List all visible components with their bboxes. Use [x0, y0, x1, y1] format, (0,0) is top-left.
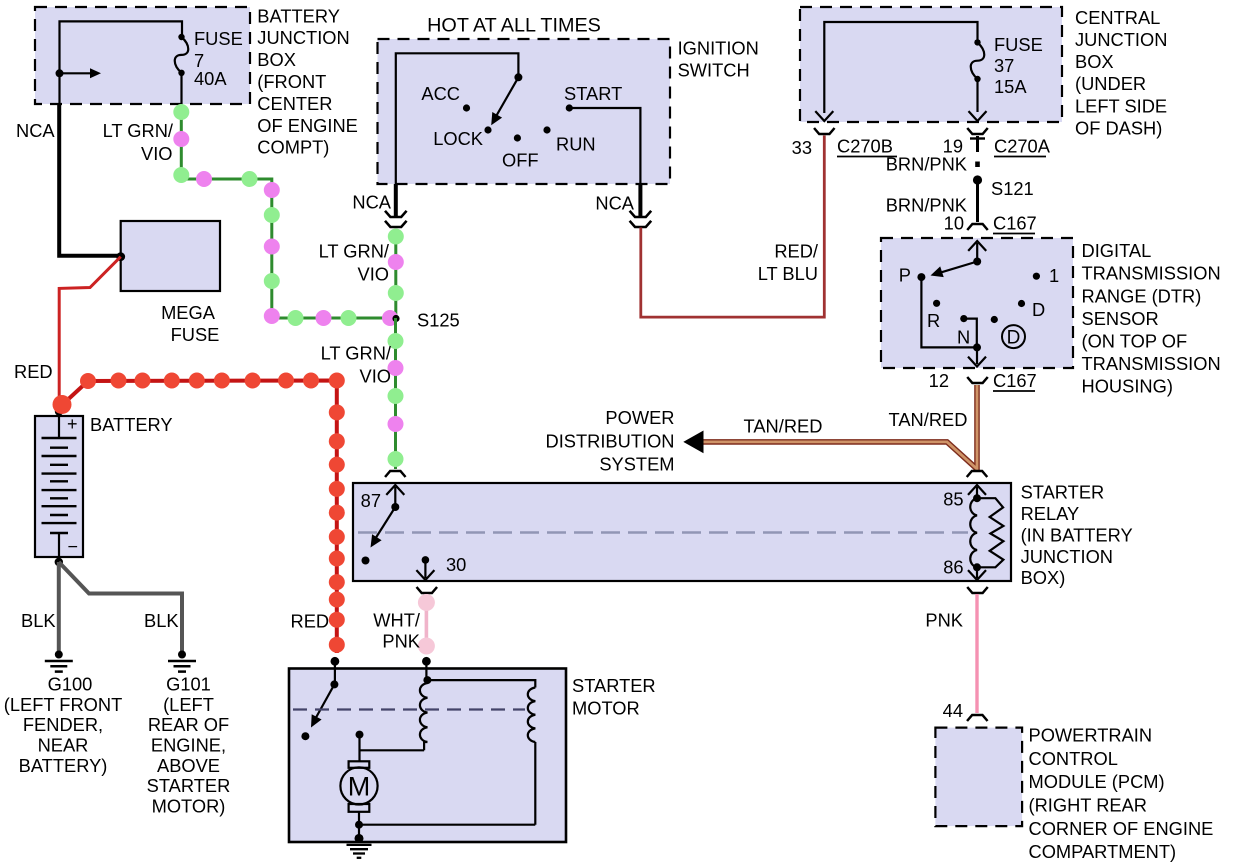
DTR P contact [899, 265, 926, 286]
BJB caption [257, 5, 358, 157]
svg-text:(LEFT FRONT: (LEFT FRONT [4, 694, 123, 715]
svg-text:LT GRN/: LT GRN/ [103, 120, 174, 141]
wire WHT/PNK [418, 594, 435, 655]
svg-text:MEGA: MEGA [161, 302, 216, 323]
connector C270B symbol [814, 128, 835, 134]
relay 87 label [361, 490, 381, 511]
wire BLK to G101 [59, 562, 182, 651]
relay interior dashed line [358, 531, 968, 533]
DTR N stub wire [964, 319, 977, 348]
svg-text:(RIGHT REAR: (RIGHT REAR [1029, 795, 1148, 816]
relay coil [970, 494, 1003, 571]
ground starter motor [347, 834, 372, 858]
svg-text:C270A: C270A [994, 136, 1051, 157]
svg-text:S125: S125 [417, 310, 460, 331]
pin 12 label [929, 370, 949, 391]
IGN ACC contact [421, 83, 470, 112]
svg-text:LOCK: LOCK [433, 128, 483, 149]
starter relay box [353, 483, 1011, 581]
splice S125 [382, 310, 460, 331]
DTR D contact [1018, 299, 1045, 320]
svg-text:NCA: NCA [352, 192, 391, 213]
svg-text:PNK: PNK [925, 610, 963, 631]
pin 10 label [944, 213, 964, 234]
DTR sensor box (dashed) [881, 238, 1073, 368]
fuse F7 (FUSE 7 40A) [175, 34, 189, 104]
svg-text:VIO: VIO [360, 366, 392, 387]
svg-text:BRN/PNK: BRN/PNK [886, 154, 967, 175]
svg-text:12: 12 [929, 370, 949, 391]
svg-text:COMPARTMENT): COMPARTMENT) [1029, 841, 1177, 862]
svg-text:SWITCH: SWITCH [678, 60, 750, 81]
svg-text:G100: G100 [48, 674, 93, 695]
relay pin 30 connector [417, 587, 438, 593]
svg-text:BOX): BOX) [1021, 567, 1066, 588]
svg-text:JUNCTION: JUNCTION [1075, 29, 1167, 50]
G101 caption [147, 674, 231, 817]
DTR R contact [927, 300, 940, 331]
svg-text:FUSE: FUSE [994, 34, 1043, 55]
svg-text:RED: RED [14, 361, 53, 382]
svg-text:COMPT): COMPT) [257, 137, 329, 158]
C167 upper label [993, 213, 1037, 234]
svg-text:BATTERY): BATTERY) [19, 755, 108, 776]
ground G101 [168, 651, 196, 672]
svg-text:JUNCTION: JUNCTION [257, 27, 349, 48]
svg-text:POWER: POWER [605, 407, 674, 428]
svg-text:1: 1 [1049, 265, 1059, 286]
IGN internal wire from ACC feed [396, 53, 519, 184]
pin 33 label [792, 137, 812, 158]
NCA label mid [352, 192, 391, 213]
LT GRN/VIO label 2 [319, 241, 390, 285]
svg-text:C167: C167 [993, 213, 1037, 234]
svg-text:REAR OF: REAR OF [148, 714, 229, 735]
svg-text:ENGINE,: ENGINE, [151, 735, 226, 756]
svg-text:G101: G101 [166, 674, 211, 695]
IGN right NCA wire [638, 184, 642, 217]
svg-text:MODULE (PCM): MODULE (PCM) [1029, 771, 1165, 792]
DTR caption [1082, 240, 1221, 397]
svg-text:(UNDER: (UNDER [1075, 73, 1146, 94]
motor interior dashed line [293, 708, 525, 710]
IGN START contact [564, 83, 622, 112]
svg-text:OF DASH): OF DASH) [1075, 117, 1162, 138]
relay pin 30 [416, 554, 466, 580]
svg-text:OF ENGINE: OF ENGINE [257, 115, 358, 136]
wire BLK to G100 [57, 562, 61, 651]
svg-text:LT GRN/: LT GRN/ [321, 343, 392, 364]
svg-text:STARTER: STARTER [1021, 482, 1105, 503]
wire RED battery to mega fuse [59, 257, 120, 402]
svg-text:RELAY: RELAY [1021, 503, 1080, 524]
wire NCA from BJB [59, 104, 118, 256]
relay pin 87 arrow [386, 485, 404, 507]
svg-text:M: M [348, 772, 371, 802]
svg-text:BATTERY: BATTERY [257, 5, 340, 26]
motor brush upper [349, 761, 370, 768]
svg-text:VIO: VIO [141, 143, 173, 164]
starter motor caption [572, 675, 656, 719]
IGN switch arm [491, 73, 522, 125]
BLK label left [21, 610, 56, 631]
DTR exit node and arrow [968, 343, 986, 366]
MEGA FUSE caption [161, 302, 219, 345]
BRN/PNK label upper [886, 154, 967, 175]
DTR middle contact [991, 316, 998, 323]
svg-text:(ON TOP OF: (ON TOP OF [1082, 331, 1188, 352]
svg-text:40A: 40A [194, 68, 227, 89]
IGN RUN contact [543, 126, 595, 154]
svg-text:TAN/RED: TAN/RED [744, 416, 823, 437]
CJB pin33 arrow [815, 111, 833, 121]
svg-text:LT BLU: LT BLU [758, 263, 818, 284]
svg-text:BATTERY: BATTERY [90, 414, 173, 435]
svg-text:CENTRAL: CENTRAL [1075, 7, 1160, 28]
svg-text:30: 30 [446, 554, 466, 575]
battery bottom node [55, 558, 63, 566]
relay 85 label [943, 489, 963, 510]
starter relay caption [1021, 482, 1133, 589]
connector C167 upper symbol [967, 224, 988, 230]
svg-text:D: D [1007, 328, 1021, 349]
pin 19 label [943, 136, 963, 157]
BRN/PNK label lower [886, 195, 967, 216]
motor coil-to-brush wire [360, 749, 425, 751]
svg-text:RUN: RUN [556, 134, 596, 155]
HOT AT ALL TIMES label [427, 15, 601, 37]
svg-text:SENSOR: SENSOR [1082, 308, 1159, 329]
battery junction box (dashed) [35, 7, 250, 104]
DTR N contact [957, 315, 970, 348]
wire LT GRN/VIO ignition to S125 [388, 229, 404, 319]
NCA connector mid (chevrons) [385, 211, 407, 227]
svg-text:P: P [899, 265, 911, 286]
svg-text:87: 87 [361, 490, 381, 511]
RED label lower [291, 611, 330, 632]
motor ground node [355, 834, 364, 843]
svg-text:HOT AT ALL TIMES: HOT AT ALL TIMES [427, 15, 601, 37]
PCM caption [1029, 725, 1214, 863]
svg-text:PNK: PNK [382, 631, 420, 652]
wire LT GRN/VIO from fuse 7 to S125 [173, 104, 390, 326]
svg-text:10: 10 [944, 213, 964, 234]
svg-text:CORNER OF ENGINE: CORNER OF ENGINE [1029, 818, 1214, 839]
POWER DISTRIBUTION SYSTEM label [546, 407, 675, 475]
svg-text:NEAR: NEAR [38, 735, 89, 756]
C167 lower label [993, 370, 1037, 391]
svg-text:JUNCTION: JUNCTION [1021, 546, 1113, 567]
svg-text:FUSE: FUSE [171, 324, 220, 345]
svg-text:S121: S121 [991, 178, 1034, 199]
svg-text:−: − [68, 537, 79, 557]
wire TAN/RED [703, 385, 977, 470]
svg-text:ACC: ACC [421, 83, 460, 104]
motor red entry node [331, 657, 340, 669]
wire RED/LT BLU [641, 136, 825, 318]
starter motor box [289, 669, 566, 843]
svg-text:VIO: VIO [358, 264, 390, 285]
relay pin 85 connector [967, 471, 988, 477]
svg-text:POWERTRAIN: POWERTRAIN [1029, 725, 1153, 746]
svg-text:44: 44 [943, 700, 963, 721]
motor pull-in coil [420, 683, 428, 750]
svg-text:MOTOR): MOTOR) [152, 795, 226, 816]
svg-text:TRANSMISSION: TRANSMISSION [1082, 263, 1221, 284]
motor switch contact [301, 732, 309, 740]
svg-text:LT GRN/: LT GRN/ [319, 241, 390, 262]
svg-text:MOTOR: MOTOR [572, 698, 640, 719]
relay 86 label [943, 557, 963, 578]
svg-text:(FRONT: (FRONT [257, 71, 326, 92]
connector C270A symbol [967, 128, 988, 139]
NCA connector right (chevrons) [630, 211, 652, 227]
TAN/RED label left [744, 416, 823, 437]
splice S121 [973, 175, 1034, 199]
svg-text:RANGE (DTR): RANGE (DTR) [1082, 285, 1202, 306]
motor solenoid junction [423, 669, 431, 685]
power distribution arrow [683, 431, 703, 454]
CJB caption [1075, 7, 1167, 139]
RED/LT BLU label [758, 241, 819, 285]
svg-text:33: 33 [792, 137, 812, 158]
CJB internal wire [824, 22, 977, 113]
ignition switch box (dashed) [378, 39, 671, 184]
motor brush lower [349, 804, 370, 812]
svg-text:TRANSMISSION: TRANSMISSION [1082, 353, 1221, 374]
svg-text:BLK: BLK [21, 610, 56, 631]
svg-text:TAN/RED: TAN/RED [889, 409, 968, 430]
svg-text:FENDER,: FENDER, [23, 714, 103, 735]
BLK label right [144, 610, 179, 631]
motor brush junction [356, 731, 364, 761]
svg-text:C167: C167 [993, 370, 1037, 391]
DTR 1 contact [1033, 265, 1059, 286]
svg-text:86: 86 [943, 557, 963, 578]
TAN/RED label right [889, 409, 968, 430]
BATTERY label [90, 414, 173, 435]
battery top node [55, 407, 63, 415]
svg-text:R: R [927, 310, 940, 331]
svg-text:DIGITAL: DIGITAL [1082, 240, 1152, 261]
C270A label [994, 136, 1051, 157]
relay pin 85 arrow [968, 485, 986, 498]
PCM box (dashed) [935, 728, 1022, 827]
relay pin 86 arrow [968, 567, 986, 580]
LT GRN/VIO label 3 [321, 343, 392, 387]
BJB internal wire [60, 21, 183, 104]
svg-text:ABOVE: ABOVE [157, 755, 220, 776]
relay pin 87 connector [385, 471, 406, 477]
wire BRN/PNK upper [975, 136, 980, 167]
svg-text:FUSE: FUSE [194, 28, 243, 49]
mega fuse box [121, 221, 220, 291]
svg-text:37: 37 [994, 55, 1014, 76]
relay pin 86 connector [967, 587, 988, 593]
relay switch arm [371, 503, 400, 548]
IGN OFF contact [502, 134, 539, 170]
PNK label [925, 610, 963, 631]
wire RED battery to starter motor [53, 373, 345, 654]
svg-text:NCA: NCA [16, 120, 55, 141]
ground G100 [45, 651, 73, 672]
svg-text:15A: 15A [994, 76, 1027, 97]
relay switch contact [362, 557, 370, 565]
LT GRN/VIO label 1 [103, 120, 174, 164]
svg-text:BOX: BOX [1075, 51, 1114, 72]
wire LT GRN/VIO S125 to relay 87 [388, 318, 404, 469]
svg-text:N: N [957, 327, 970, 348]
connector C167 lower symbol [967, 377, 988, 383]
battery cells [42, 414, 79, 557]
C270B label [837, 136, 897, 157]
DTR circled D indicator [1002, 325, 1025, 348]
svg-text:NCA: NCA [595, 193, 634, 214]
central junction box (dashed) [800, 7, 1062, 122]
wire BRN/PNK lower [976, 184, 979, 222]
svg-text:OFF: OFF [502, 150, 539, 171]
fuse F37 (FUSE 37 15A) [971, 39, 985, 112]
pin 44 label [943, 700, 963, 721]
motor M symbol [340, 767, 377, 804]
svg-text:STARTER: STARTER [572, 675, 656, 696]
svg-text:D: D [1032, 299, 1045, 320]
CJB pin19 arrow [969, 111, 987, 121]
svg-text:WHT/: WHT/ [373, 610, 421, 631]
WHT/PNK label [373, 610, 421, 652]
motor wht/pnk entry node [422, 657, 431, 669]
svg-text:CONTROL: CONTROL [1029, 748, 1118, 769]
DTR switch arm [931, 258, 982, 278]
NCA label left-top [16, 120, 55, 141]
G100 caption [4, 674, 123, 776]
svg-text:(IN BATTERY: (IN BATTERY [1021, 524, 1133, 545]
NCA label right [595, 193, 634, 214]
svg-text:85: 85 [943, 489, 963, 510]
svg-text:C270B: C270B [837, 136, 893, 157]
RED label upper [14, 361, 53, 382]
svg-text:CENTER: CENTER [257, 93, 332, 114]
DTR internal wire P to pin12 [921, 277, 977, 347]
svg-text:+: + [67, 414, 78, 434]
svg-text:HOUSING): HOUSING) [1082, 376, 1173, 397]
mega fuse node [116, 252, 125, 261]
IGN START wire [569, 108, 640, 184]
motor bottom wire [355, 812, 535, 839]
IGN left NCA wire [394, 184, 398, 217]
DTR entry arrow [968, 241, 986, 262]
ignition switch caption [678, 37, 759, 80]
svg-text:STARTER: STARTER [147, 775, 231, 796]
svg-text:SYSTEM: SYSTEM [599, 454, 674, 475]
svg-text:BLK: BLK [144, 610, 179, 631]
svg-text:RED: RED [291, 611, 330, 632]
motor top wire to hold coil [427, 680, 535, 687]
battery box [35, 416, 83, 557]
motor switch [311, 669, 338, 728]
svg-text:IGNITION: IGNITION [678, 37, 759, 58]
fuse 7 label [194, 28, 243, 89]
svg-text:DISTRIBUTION: DISTRIBUTION [546, 430, 675, 451]
svg-text:START: START [564, 83, 622, 104]
motor hold-in coil [528, 688, 536, 825]
IGN LOCK contact [433, 126, 491, 149]
svg-text:BOX: BOX [257, 49, 296, 70]
PCM pin 44 connector [967, 715, 988, 721]
BJB node with arrow [56, 68, 102, 78]
svg-text:RED/: RED/ [774, 241, 819, 262]
svg-text:LEFT SIDE: LEFT SIDE [1075, 95, 1167, 116]
svg-text:(LEFT: (LEFT [163, 694, 214, 715]
wire PNK [975, 594, 978, 713]
fuse 37 label [994, 34, 1043, 97]
